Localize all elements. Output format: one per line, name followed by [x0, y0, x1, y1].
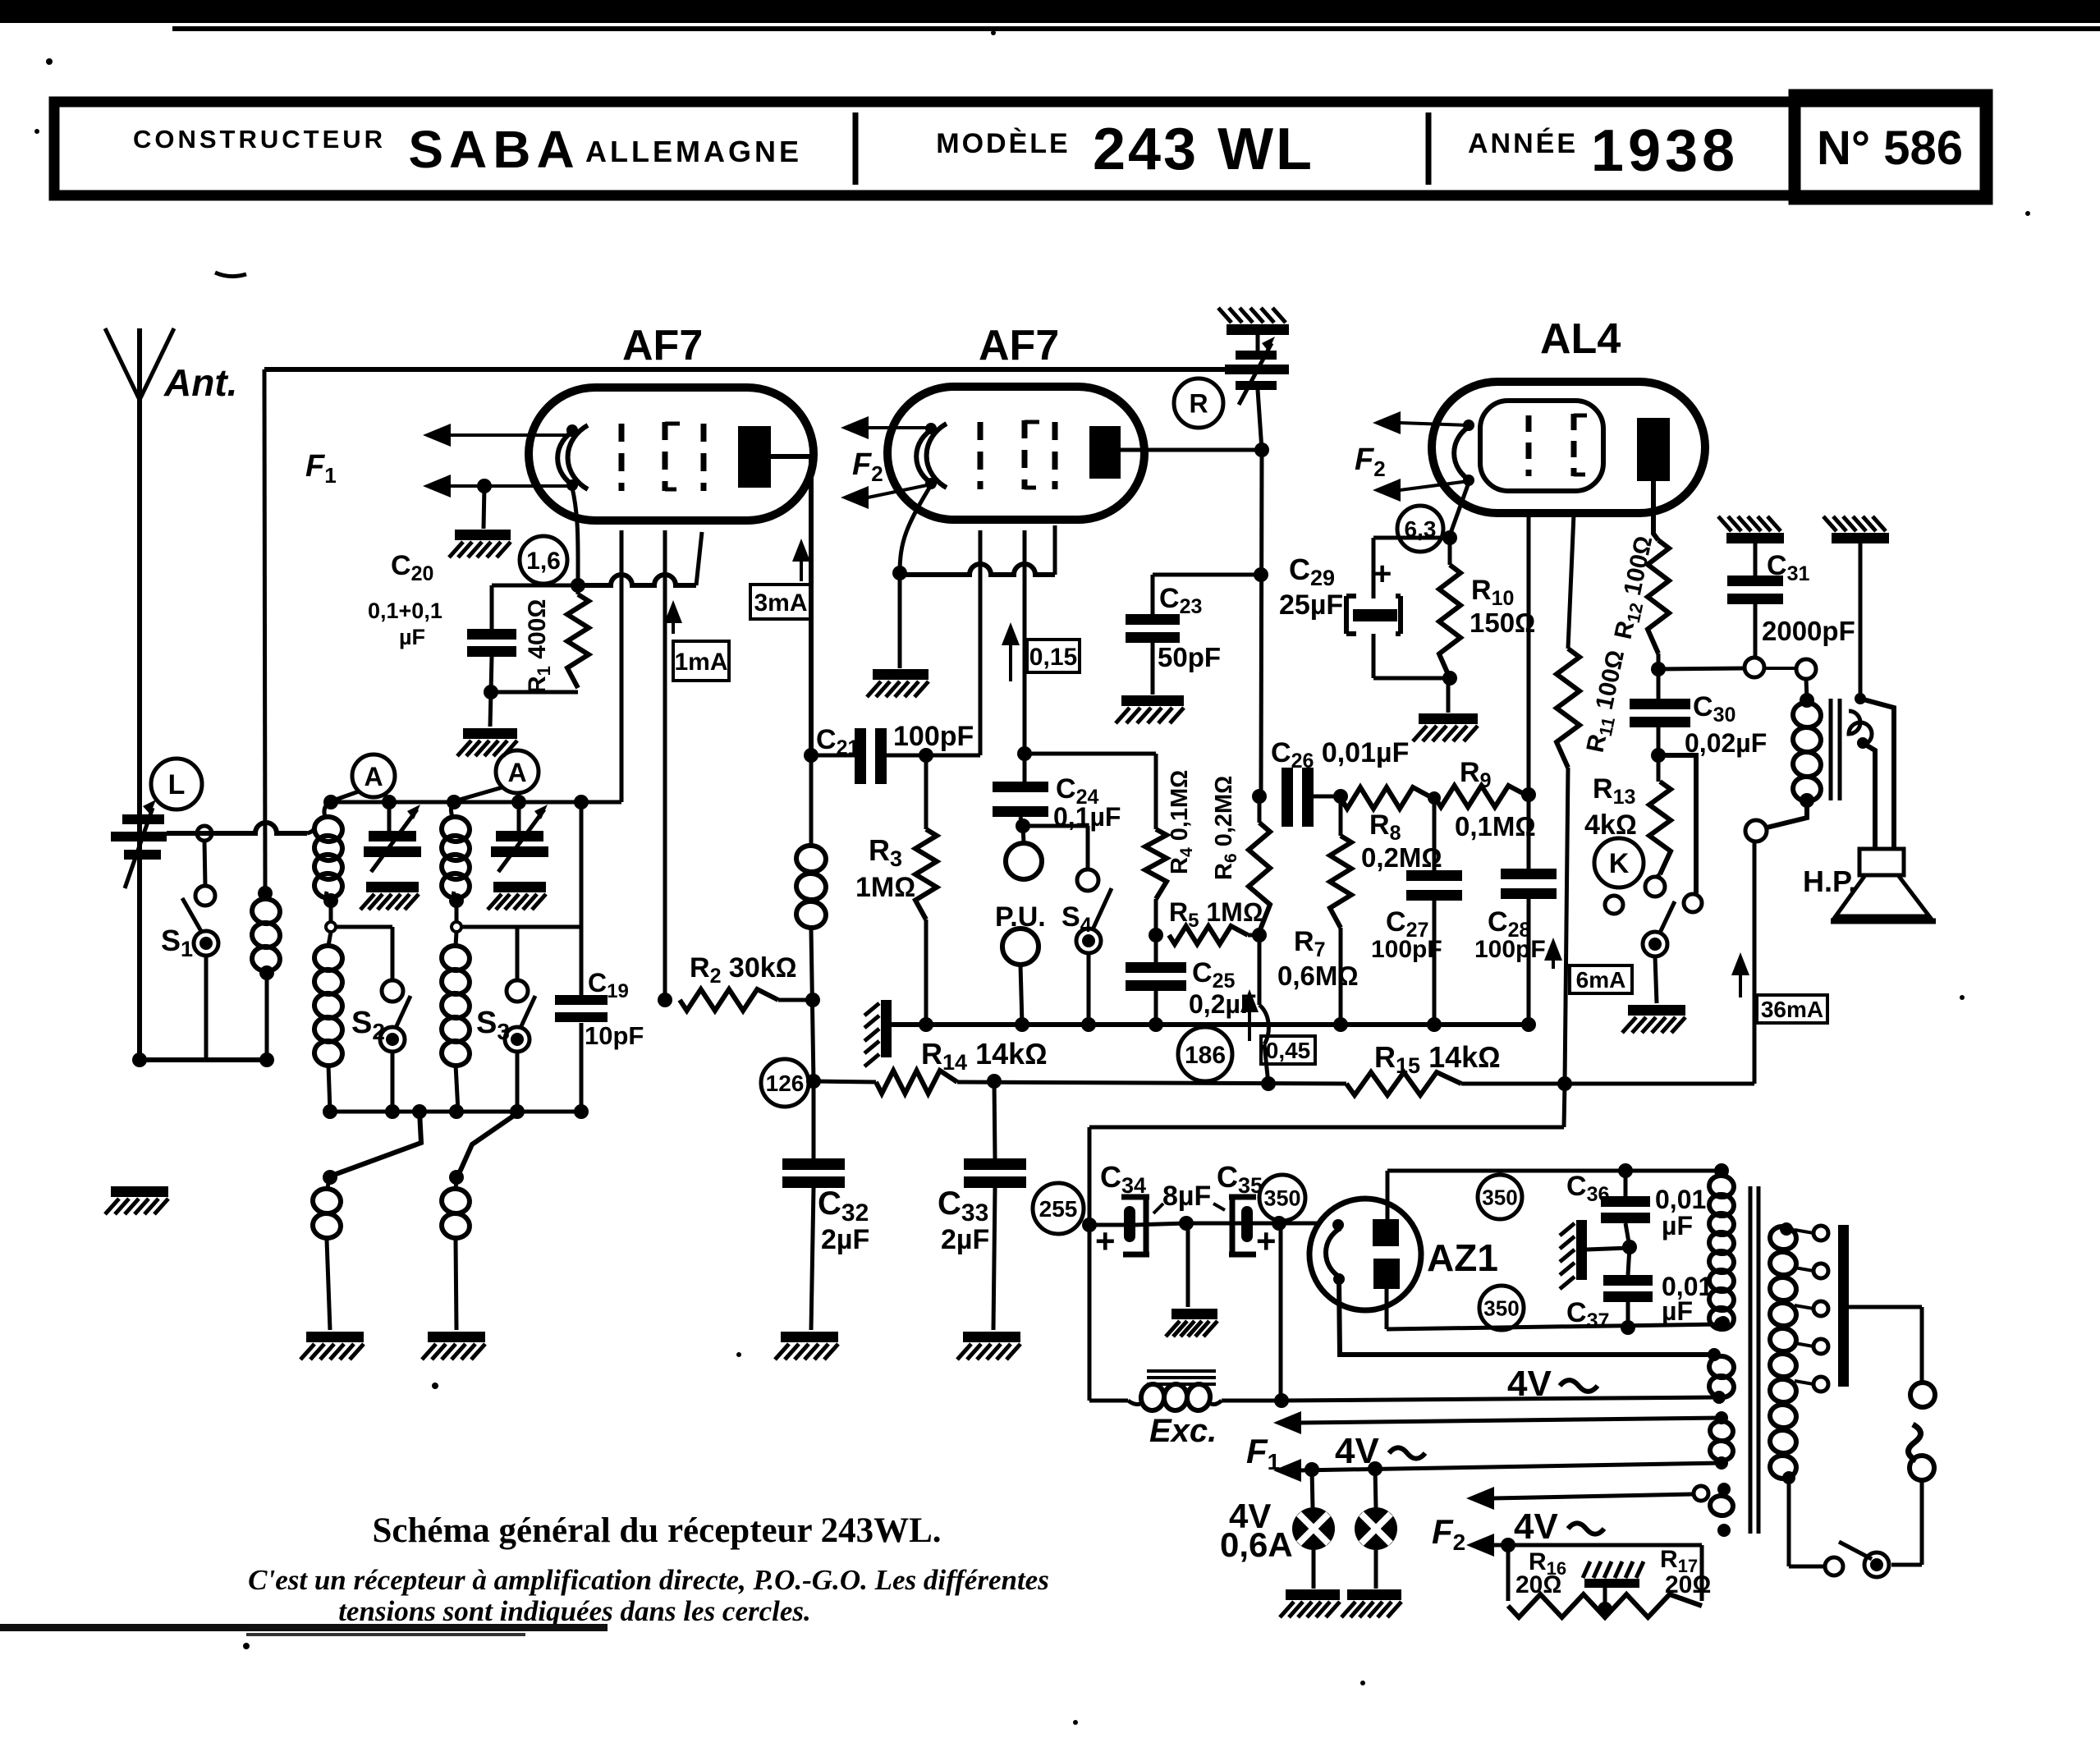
label C35	[1217, 1160, 1277, 1260]
coil OT secondary	[1849, 693, 1872, 749]
node 255 circle	[1033, 1183, 1084, 1234]
header number No 586	[1817, 122, 1963, 175]
svg-text:P.U.: P.U.	[995, 901, 1046, 933]
terminal OT 1	[1745, 658, 1764, 677]
tube V1 cathode	[557, 424, 588, 491]
header model 243 WL	[1093, 117, 1314, 182]
capacitor C32	[782, 1081, 845, 1330]
svg-text:H.P.: H.P.	[1803, 864, 1856, 898]
coil L2a	[313, 795, 344, 901]
coil EXC	[1089, 1383, 1282, 1412]
svg-text:R5 1MΩ: R5 1MΩ	[1169, 897, 1263, 932]
wire F2 lower	[1466, 1534, 1702, 1557]
capacitor C26	[1282, 768, 1341, 827]
label Ant	[163, 361, 237, 404]
svg-text:126: 126	[766, 1071, 805, 1096]
box 0p15	[1027, 640, 1080, 672]
wire antenna tap	[167, 823, 314, 833]
wire V1 grid2 down	[663, 530, 667, 1000]
label 4V 0,6A	[1220, 1497, 1293, 1564]
svg-text:Exc.: Exc.	[1149, 1413, 1217, 1449]
arrow F2 upper AL4	[1373, 411, 1469, 434]
wire HT rail down	[1089, 1084, 1565, 1401]
svg-text:350: 350	[1482, 1185, 1517, 1209]
node V1 cathode junction	[571, 578, 585, 593]
svg-text:1mA: 1mA	[674, 649, 727, 676]
wire V2 cathode ground stub	[898, 573, 902, 668]
node C26 left	[1252, 789, 1267, 804]
resistor R9	[1434, 786, 1529, 807]
switch S4	[1076, 869, 1112, 1025]
svg-text:100pF: 100pF	[1371, 936, 1442, 963]
wire AZ1 filament return	[1339, 1279, 1713, 1355]
label R4	[1167, 770, 1196, 874]
label S2	[351, 1006, 385, 1044]
svg-text:CONSTRUCTEUR: CONSTRUCTEUR	[133, 125, 386, 154]
tube V3 inner box	[1480, 401, 1603, 491]
top border bar	[0, 0, 2100, 31]
svg-text:8µF: 8µF	[1162, 1181, 1211, 1212]
svg-text:R14 14kΩ: R14 14kΩ	[921, 1037, 1048, 1075]
wire R13 alt contact	[1658, 755, 1696, 893]
box 3mA	[750, 585, 811, 619]
svg-text:0,6A: 0,6A	[1220, 1525, 1293, 1564]
resistor R15	[1346, 1072, 1461, 1095]
label C24	[1053, 773, 1121, 832]
terminal OT 2	[1764, 659, 1816, 679]
label R7	[1277, 926, 1359, 991]
box AZ1 left edge	[1387, 1171, 1387, 1329]
wire top left vertical	[258, 369, 273, 901]
label C37	[1566, 1272, 1713, 1332]
svg-text:4V: 4V	[1514, 1506, 1558, 1547]
wire coil bus	[330, 530, 621, 802]
box 1mA	[673, 641, 729, 681]
svg-text:4kΩ: 4kΩ	[1584, 809, 1637, 841]
svg-text:4V: 4V	[1507, 1364, 1552, 1404]
coil L2b junction	[323, 893, 338, 946]
header label MODELE	[936, 128, 1070, 159]
svg-text:SABA: SABA	[408, 120, 580, 179]
coil L4b	[440, 1170, 471, 1330]
wire grid V2	[979, 530, 983, 755]
capacitor C19	[555, 927, 608, 1112]
svg-text:L: L	[168, 769, 186, 800]
label C29	[1279, 553, 1392, 621]
wire mains upper	[1849, 1307, 1922, 1383]
svg-text:A: A	[507, 758, 526, 787]
resistor R11	[1557, 649, 1580, 1084]
svg-text:0,1+0,1: 0,1+0,1	[368, 598, 442, 623]
label EXC	[1149, 1413, 1217, 1449]
tube V3 anode	[1637, 418, 1670, 481]
wire V2 anode lead	[1121, 448, 1262, 452]
svg-text:R2 30kΩ: R2 30kΩ	[690, 952, 797, 988]
rectifier AZ1	[1309, 1199, 1421, 1310]
svg-text:2µF: 2µF	[941, 1224, 989, 1255]
svg-text:100pF: 100pF	[893, 721, 974, 752]
box 6mA	[1570, 965, 1632, 993]
wire coil row bottom	[323, 1104, 589, 1119]
wire lamp grounds	[1314, 1550, 1376, 1589]
wire V3 cathode down	[1450, 483, 1469, 535]
svg-text:0,01: 0,01	[1655, 1185, 1706, 1214]
svg-text:K: K	[1609, 848, 1630, 879]
ground C22 top	[1218, 308, 1289, 335]
svg-text:0,1MΩ: 0,1MΩ	[1455, 811, 1536, 841]
switch S1	[182, 826, 218, 1060]
arrow F1 lower	[423, 475, 572, 498]
wire V3 screen down	[1568, 514, 1574, 649]
box AZ1 top	[1387, 1163, 1729, 1178]
variable capacitor VC2	[491, 795, 548, 872]
wire anode to OT	[1658, 668, 1744, 669]
caption line2	[248, 1564, 1049, 1596]
ground C33	[957, 1332, 1020, 1360]
wire F1 upper	[1273, 1411, 1722, 1434]
node V3 cathode junction	[1442, 530, 1457, 545]
tube V3 cathode	[1454, 420, 1474, 486]
arrow 1mA	[664, 600, 682, 634]
wire secondary ground	[1859, 543, 1863, 699]
label C32	[818, 1185, 869, 1255]
resistor R2	[658, 989, 820, 1011]
speaker HP	[1831, 849, 1936, 921]
label HP	[1803, 864, 1856, 898]
node 1p6 circle	[520, 536, 567, 584]
label 4V rect	[1507, 1364, 1598, 1404]
node R circle	[1174, 378, 1223, 428]
svg-text:R15 14kΩ: R15 14kΩ	[1374, 1040, 1501, 1078]
transformer HT winding	[1708, 1171, 1735, 1331]
arrow 6mA	[1544, 938, 1562, 969]
coil L3b junction	[449, 893, 464, 946]
label F2 bottom	[1432, 1512, 1465, 1555]
label R17	[1660, 1546, 1711, 1598]
resistor R12	[1648, 540, 1669, 653]
label S3	[476, 1006, 510, 1044]
svg-text:ALLEMAGNE: ALLEMAGNE	[585, 135, 802, 168]
label F2 AL4	[1355, 443, 1386, 481]
node V2 cathode	[892, 566, 907, 580]
antenna Ant	[105, 328, 174, 1060]
wire cathode to C20	[492, 585, 578, 629]
transformer taps	[1795, 1226, 1828, 1392]
svg-text:2µF: 2µF	[821, 1224, 869, 1255]
coil L2b	[313, 944, 344, 1112]
label R3	[855, 833, 915, 903]
label C30	[1685, 691, 1767, 758]
tube V1 grid 2	[665, 422, 680, 491]
variable capacitor antenna trimmer	[111, 800, 167, 888]
capacitor C35 electrolytic	[1229, 1197, 1256, 1254]
wire bottom antenna	[132, 1052, 274, 1067]
label AF7 first	[622, 322, 703, 369]
node C23 branch	[1254, 567, 1268, 582]
svg-text:25µF: 25µF	[1279, 589, 1343, 621]
svg-text:+: +	[1373, 556, 1392, 592]
transformer core	[1750, 1186, 1758, 1534]
svg-text:µF: µF	[1662, 1211, 1693, 1240]
label R5	[1169, 897, 1263, 932]
potentiometer R16 R17	[1508, 1545, 1702, 1617]
lamp 2	[1355, 1469, 1397, 1550]
wire F1 ground stub	[484, 486, 484, 529]
wire mass bus	[892, 1017, 1536, 1032]
svg-text:255: 255	[1039, 1196, 1078, 1222]
label R6	[1211, 776, 1240, 880]
svg-text:A: A	[364, 762, 383, 791]
node C34 C35 mid	[1179, 1216, 1194, 1231]
ground under antenna	[105, 1186, 168, 1214]
wire speaker feed	[1860, 699, 1894, 849]
switch S3	[505, 980, 535, 1112]
terminal OT 3	[1745, 820, 1767, 841]
node 126 circle	[761, 1059, 809, 1107]
label R10	[1470, 575, 1535, 638]
ground C32	[775, 1332, 838, 1360]
label R1 400	[524, 599, 554, 694]
terminal mains 2	[1910, 1456, 1934, 1480]
stray mark top left	[215, 273, 246, 277]
tube V2 AF7 envelope	[887, 387, 1144, 520]
node R12 bottom	[1651, 653, 1666, 699]
label 4V F1	[1335, 1431, 1425, 1471]
ground coil L4b	[422, 1332, 485, 1360]
wire V2 anode down	[1261, 450, 1262, 796]
svg-text:Schéma général du récepteur 24: Schéma général du récepteur 243WL.	[372, 1511, 941, 1550]
header label ANNEE	[1468, 128, 1578, 159]
label S4	[1061, 901, 1092, 937]
wire V2 grid2 down	[1023, 530, 1027, 782]
svg-text:20Ω: 20Ω	[1515, 1571, 1561, 1598]
svg-text:20Ω: 20Ω	[1665, 1571, 1711, 1598]
label C20 cathode	[368, 550, 442, 649]
ground switch K	[1622, 1005, 1685, 1033]
node 350 top circle	[1478, 1175, 1522, 1219]
tube V3 AL4 envelope	[1432, 382, 1705, 513]
label C36	[1566, 1171, 1706, 1240]
node R14 left	[806, 1074, 821, 1089]
node L circle	[151, 759, 202, 809]
box 0p45	[1261, 1036, 1315, 1064]
lamp 1	[1292, 1470, 1335, 1550]
terminal A2	[460, 750, 539, 800]
label C31	[1762, 550, 1855, 646]
coil L3a	[440, 795, 471, 901]
wire V3 grid down	[1527, 516, 1531, 795]
svg-text:R4 0,1MΩ: R4 0,1MΩ	[1167, 770, 1196, 874]
node 6p3 circle	[1397, 506, 1443, 552]
ground bar bus	[864, 1000, 892, 1066]
terminal mains 1	[1910, 1383, 1935, 1407]
wire C34 to mid	[1135, 1223, 1186, 1225]
capacitor C36	[1601, 1171, 1650, 1247]
wire mains lower	[1891, 1480, 1922, 1565]
label C28	[1474, 906, 1546, 963]
resistor R4	[1145, 754, 1167, 935]
coil OT primary	[1791, 701, 1823, 803]
svg-text:150Ω: 150Ω	[1470, 608, 1535, 638]
svg-text:1938: 1938	[1591, 118, 1739, 184]
switch K contacts	[1605, 877, 1702, 1003]
header brand SABA	[408, 120, 580, 179]
svg-text:186: 186	[1185, 1042, 1226, 1069]
tube V3 grid 2	[1574, 414, 1587, 476]
arrow F2 lower tube2	[841, 484, 931, 509]
arrow F2 lower AL4	[1373, 479, 1469, 502]
wire S3 feed	[461, 795, 589, 980]
node OT primary bottom	[1767, 793, 1814, 828]
svg-text:C'est un récepteur à ampli: C'est un récepteur à amplification direc…	[248, 1564, 1049, 1596]
wire OT primary top	[1800, 679, 1814, 708]
label C26	[1271, 737, 1409, 773]
capacitor C30	[1630, 699, 1690, 782]
transformer F2 winding	[1694, 1483, 1735, 1537]
coil EXC core	[1147, 1371, 1216, 1384]
svg-text:350: 350	[1483, 1295, 1519, 1320]
wire ground to mid	[1587, 1240, 1637, 1254]
capacitor C24	[993, 782, 1048, 826]
node 350 bottom circle	[1479, 1286, 1524, 1330]
pickup PU terminals	[1002, 826, 1042, 1025]
ground C31	[1718, 516, 1784, 543]
wire to coil L4b	[458, 1112, 520, 1176]
node R4 R5	[1149, 928, 1163, 942]
arrow F1 upper	[423, 424, 572, 447]
label C19	[585, 968, 644, 1050]
wire R10 ground	[1447, 678, 1451, 713]
label mains sine	[1908, 1424, 1920, 1461]
header label CONSTRUCTEUR	[133, 125, 386, 154]
wire V1 anode lead	[771, 456, 811, 754]
wire 0p45 hop	[1259, 935, 1268, 1084]
arrow 0p15	[1002, 622, 1020, 681]
label 4V F2	[1514, 1506, 1604, 1547]
ground VC1	[360, 882, 419, 910]
capacitor C34 electrolytic	[1121, 1197, 1149, 1254]
arrow F2 upper tube2	[841, 416, 931, 439]
capacitor C28	[1501, 795, 1557, 1025]
svg-text:µF: µF	[399, 625, 425, 649]
label F1 bottom	[1246, 1432, 1280, 1474]
wire C35 to AZ1	[1253, 1216, 1338, 1231]
label PU	[995, 901, 1046, 933]
caption line3	[338, 1595, 811, 1627]
label F1	[305, 449, 337, 488]
arrow 0p45	[1240, 989, 1259, 1041]
svg-text:2000pF: 2000pF	[1762, 616, 1855, 646]
resistor R8	[1341, 787, 1433, 809]
svg-text:243 WL: 243 WL	[1093, 117, 1314, 182]
capacitor C31	[1727, 543, 1783, 658]
wire F2 upper	[1466, 1487, 1693, 1510]
tube V2 cathode	[916, 423, 947, 489]
node K circle	[1594, 838, 1644, 887]
box 36mA	[1757, 995, 1827, 1023]
svg-text:0,15: 0,15	[1029, 644, 1077, 671]
svg-text:R1 400Ω: R1 400Ω	[524, 599, 554, 694]
label R13	[1584, 773, 1637, 841]
wire 255 to C34	[1089, 1223, 1124, 1227]
capacitor C33	[964, 1081, 1026, 1330]
label 8uF	[1153, 1181, 1225, 1213]
node 255 junction	[1082, 1218, 1097, 1232]
svg-text:350: 350	[1263, 1186, 1300, 1211]
switch mains	[1789, 1478, 1889, 1577]
capacitor C23 50pF	[1126, 575, 1261, 695]
node anode C21	[804, 748, 818, 763]
ground F1	[449, 530, 511, 557]
wire EXC riser	[1274, 1223, 1289, 1408]
wire top rail	[264, 367, 1225, 372]
resistor R5	[1169, 926, 1259, 944]
label C21	[816, 721, 974, 759]
svg-text:50pF: 50pF	[1158, 642, 1221, 672]
wire V2 cathode grid3	[900, 525, 1055, 575]
wire F1 lower	[1273, 1459, 1722, 1482]
tube V1 AF7 envelope	[529, 387, 814, 520]
label F2 tube2	[852, 447, 883, 486]
ground OT secondary	[1823, 516, 1889, 543]
svg-text:µF: µF	[1662, 1296, 1693, 1326]
ground C23	[1116, 695, 1184, 723]
svg-text:R6 0,2MΩ: R6 0,2MΩ	[1211, 776, 1240, 880]
svg-text:R: R	[1189, 389, 1208, 419]
transformer 4V rect winding	[1708, 1348, 1735, 1404]
label S1	[161, 924, 193, 961]
label R8	[1361, 809, 1442, 873]
wire S2 feed	[336, 927, 392, 980]
wire V1 grid1 down	[620, 530, 624, 802]
ground V3 cathode	[1413, 713, 1478, 741]
wire V2 cathode down	[900, 485, 931, 573]
ground C34 mid	[1166, 1309, 1217, 1337]
label C33	[938, 1185, 989, 1255]
node C21 R3	[919, 748, 933, 763]
coil L1	[250, 897, 282, 1060]
transformer primary	[1768, 1222, 1798, 1484]
resistor R3	[915, 755, 937, 1025]
tube V1 grid 1	[619, 424, 625, 491]
label R12	[1610, 534, 1662, 643]
tube V1 anode	[738, 426, 771, 488]
label C25	[1189, 957, 1256, 1019]
tube V1 grid 3	[701, 424, 707, 491]
label R16	[1515, 1548, 1566, 1598]
wire R14 R15	[957, 1074, 1346, 1091]
header label ALLEMAGNE	[585, 135, 802, 168]
wire S4 feed	[1023, 826, 1088, 869]
wire 4V rect lower	[1282, 1397, 1717, 1401]
node under C24	[1016, 819, 1030, 833]
node R9 grid	[1521, 787, 1536, 802]
svg-text:0,2MΩ: 0,2MΩ	[1361, 842, 1442, 873]
label AZ1	[1427, 1236, 1498, 1279]
capacitor C29 electrolytic	[1346, 538, 1450, 678]
svg-text:AF7: AF7	[979, 322, 1059, 369]
svg-text:AZ1: AZ1	[1427, 1236, 1498, 1279]
coil L4a	[311, 1170, 342, 1330]
label AF7 second	[979, 322, 1059, 369]
wire to ground C20	[490, 692, 491, 727]
transformer OT core	[1831, 699, 1840, 800]
wire mid ground	[1186, 1223, 1190, 1307]
label C34	[1095, 1160, 1146, 1260]
label R2	[690, 952, 797, 988]
variable capacitor C22	[1225, 335, 1289, 450]
resistor R1	[567, 585, 589, 688]
